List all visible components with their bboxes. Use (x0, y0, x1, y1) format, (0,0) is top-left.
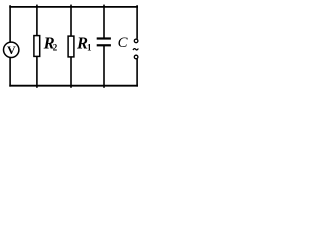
svg-text:C: C (118, 35, 128, 51)
wire branch C lower (103, 46, 105, 88)
voltmeter V1 (4, 42, 19, 57)
terminal lower (134, 55, 138, 59)
wire branch R1 lower (70, 57, 72, 88)
wire bottom bus (9, 85, 138, 87)
svg-text:1: 1 (87, 43, 92, 53)
resistor R2 (34, 36, 40, 57)
AC tilde (133, 49, 138, 51)
wire branch R1 (70, 5, 72, 37)
svg-text:V: V (7, 43, 16, 57)
resistor R1 (68, 36, 74, 57)
wire branch R2 (36, 5, 38, 37)
capacitor C (97, 39, 111, 46)
wire right side lower (136, 59, 138, 87)
wire branch R2 lower (36, 56, 38, 87)
wire branch C upper (103, 5, 105, 38)
wire right side upper (136, 5, 138, 39)
terminal upper (134, 39, 138, 43)
wire left side (9, 5, 11, 86)
svg-text:2: 2 (53, 43, 58, 53)
wire top bus (9, 6, 138, 8)
